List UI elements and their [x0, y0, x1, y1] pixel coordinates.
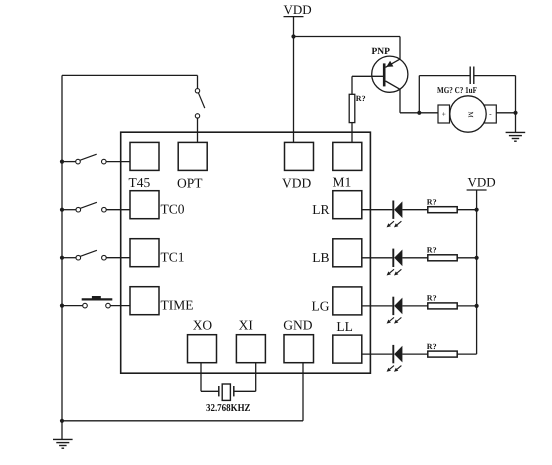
svg-text:LL: LL: [336, 319, 353, 334]
svg-text:R?: R?: [427, 342, 437, 351]
svg-text:VDD: VDD: [468, 175, 496, 190]
svg-text:LG: LG: [312, 298, 330, 313]
svg-text:T45: T45: [129, 175, 151, 190]
svg-text:R?: R?: [427, 294, 437, 303]
svg-text:32.768KHZ: 32.768KHZ: [206, 403, 251, 414]
svg-text:OPT: OPT: [177, 176, 203, 191]
svg-text:M1: M1: [333, 175, 352, 190]
svg-text:XO: XO: [193, 318, 213, 333]
svg-text:TIME: TIME: [161, 298, 194, 313]
svg-text:R?: R?: [427, 246, 437, 255]
svg-text:VDD: VDD: [284, 2, 312, 17]
svg-text:LB: LB: [312, 250, 329, 265]
svg-text:TC1: TC1: [161, 250, 185, 265]
svg-text:MG? C? 1uF: MG? C? 1uF: [437, 85, 477, 95]
svg-text:VDD: VDD: [282, 176, 311, 191]
svg-text:XI: XI: [239, 318, 254, 333]
svg-text:+: +: [442, 110, 446, 119]
svg-text:TC0: TC0: [161, 202, 185, 217]
svg-text:M: M: [467, 111, 475, 118]
svg-text:LR: LR: [312, 202, 329, 217]
svg-text:PNP: PNP: [372, 47, 391, 57]
svg-text:GND: GND: [283, 318, 312, 333]
svg-text:R?: R?: [356, 94, 366, 103]
svg-text:R?: R?: [427, 197, 437, 206]
